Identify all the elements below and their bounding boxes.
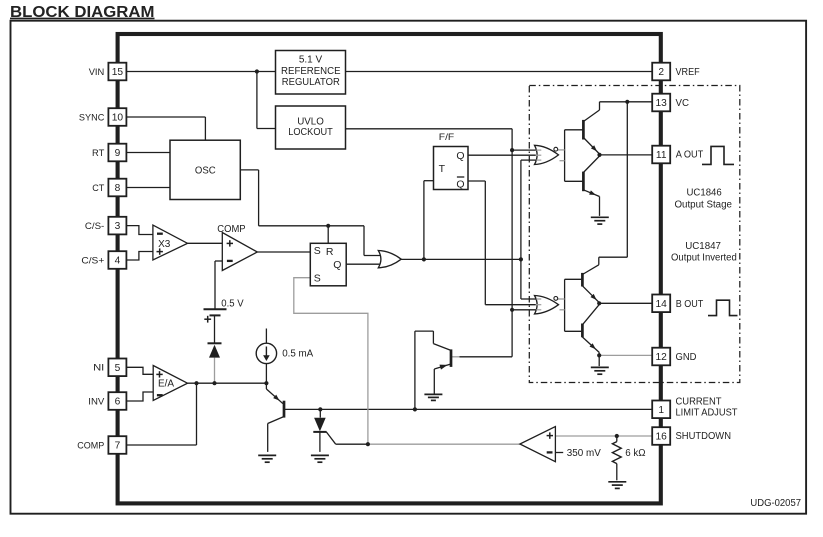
svg-text:15: 15 (112, 67, 124, 78)
svg-text:OSC: OSC (195, 166, 216, 177)
svg-text:14: 14 (656, 299, 668, 310)
svg-text:GND: GND (676, 352, 697, 363)
svg-text:SYNC: SYNC (79, 112, 104, 123)
svg-text:16: 16 (656, 432, 668, 443)
svg-text:Q: Q (456, 150, 464, 162)
svg-text:UC1847: UC1847 (685, 241, 721, 252)
svg-text:F/F: F/F (439, 132, 455, 142)
svg-text:CURRENT: CURRENT (676, 397, 722, 408)
svg-text:C/S+: C/S+ (81, 255, 104, 266)
svg-text:COMP: COMP (217, 224, 246, 235)
svg-text:10: 10 (112, 113, 124, 124)
svg-text:SHUTDOWN: SHUTDOWN (676, 431, 732, 442)
svg-text:INV: INV (88, 396, 105, 407)
svg-text:CT: CT (92, 183, 104, 194)
svg-text:S: S (314, 272, 321, 284)
svg-text:4: 4 (115, 256, 121, 267)
svg-text:UDG-02057: UDG-02057 (750, 498, 801, 509)
svg-text:NI: NI (93, 363, 104, 374)
svg-text:7: 7 (115, 441, 121, 452)
svg-text:8: 8 (115, 183, 121, 194)
svg-text:13: 13 (656, 98, 668, 109)
svg-text:REGULATOR: REGULATOR (282, 77, 340, 88)
svg-text:11: 11 (656, 150, 667, 161)
svg-text:X3: X3 (158, 239, 171, 250)
svg-text:COMP: COMP (77, 440, 104, 451)
svg-text:B OUT: B OUT (676, 299, 704, 310)
svg-text:6 kΩ: 6 kΩ (625, 448, 646, 459)
svg-text:1: 1 (658, 405, 664, 416)
svg-text:12: 12 (656, 352, 668, 363)
svg-text:RT: RT (92, 148, 104, 159)
svg-text:VIN: VIN (89, 67, 105, 78)
svg-text:VC: VC (676, 98, 690, 109)
svg-text:UC1846: UC1846 (687, 188, 723, 199)
svg-text:2: 2 (658, 67, 664, 78)
svg-text:6: 6 (115, 397, 121, 408)
svg-text:5.1 V: 5.1 V (299, 55, 323, 66)
svg-text:VREF: VREF (676, 67, 700, 78)
svg-text:Output Inverted: Output Inverted (671, 253, 737, 264)
svg-text:A OUT: A OUT (676, 150, 704, 161)
svg-text:Q: Q (456, 178, 464, 190)
svg-text:LOCKOUT: LOCKOUT (288, 127, 333, 138)
svg-text:T: T (439, 163, 446, 175)
svg-text:3: 3 (115, 221, 121, 232)
svg-text:9: 9 (115, 148, 121, 159)
svg-text:LIMIT ADJUST: LIMIT ADJUST (676, 408, 738, 419)
svg-text:5: 5 (115, 363, 121, 374)
svg-text:Output Stage: Output Stage (674, 200, 732, 211)
svg-text:R: R (326, 246, 334, 258)
svg-text:350 mV: 350 mV (567, 448, 601, 459)
svg-text:E/A: E/A (158, 379, 174, 390)
svg-text:Q: Q (333, 259, 341, 271)
svg-text:0.5 mA: 0.5 mA (282, 348, 313, 359)
svg-text:S: S (314, 245, 321, 257)
svg-text:REFERENCE: REFERENCE (281, 66, 341, 77)
svg-text:0.5 V: 0.5 V (221, 299, 244, 310)
svg-text:C/S-: C/S- (85, 221, 104, 232)
